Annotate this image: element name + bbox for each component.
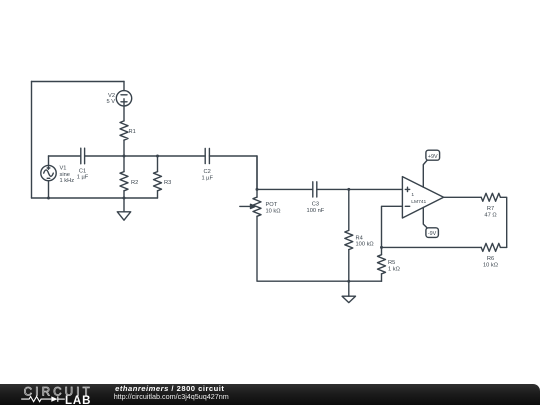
- wire R4 top lead: [348, 189, 350, 230]
- svg-text:-9V: -9V: [428, 231, 437, 237]
- svg-text:R7: R7: [487, 206, 494, 212]
- footer text line 1: [115, 385, 224, 393]
- node row A / R2 junction: [123, 155, 126, 158]
- resistor R4: [345, 230, 353, 249]
- svg-text:LAB: LAB: [65, 395, 91, 405]
- wire row B left (node to C3): [257, 188, 313, 190]
- svg-text:1 µF: 1 µF: [77, 175, 89, 181]
- svg-text:sine: sine: [60, 172, 70, 178]
- wire V1 top lead: [48, 156, 50, 165]
- resistor R2: [120, 172, 128, 191]
- resistor R6: [481, 243, 500, 251]
- wire left rail: [31, 82, 33, 199]
- svg-text:100 kΩ: 100 kΩ: [356, 242, 374, 248]
- svg-text:1 kΩ: 1 kΩ: [388, 267, 400, 273]
- resistor R1: [120, 121, 128, 140]
- wire row A middle (C1 to C2): [85, 155, 206, 157]
- ground GND1: [117, 198, 130, 220]
- resistor R3: [154, 172, 162, 191]
- svg-text:V1: V1: [60, 166, 67, 172]
- svg-text:1 µF: 1 µF: [201, 176, 213, 182]
- svg-text:1: 1: [411, 192, 414, 198]
- svg-text:C1: C1: [79, 168, 86, 174]
- svg-text:100 nF: 100 nF: [307, 208, 325, 214]
- wire V2 top lead: [123, 82, 125, 91]
- capacitor C3: [313, 182, 317, 197]
- footer text line 2: [114, 393, 229, 400]
- svg-text:5 V: 5 V: [106, 99, 115, 105]
- wire POT bottom to bottom rail: [257, 216, 382, 281]
- node R5 / R6 junction: [380, 246, 383, 249]
- node R4 top junction: [347, 188, 350, 191]
- svg-text:R1: R1: [129, 129, 136, 135]
- power label +9V: [426, 150, 440, 160]
- resistor R7: [481, 193, 500, 201]
- wire R4 bottom lead: [348, 250, 350, 282]
- label POT: [266, 202, 281, 214]
- svg-text:R5: R5: [388, 260, 395, 266]
- wire bottom-left rail: [32, 197, 158, 199]
- ground GND2: [342, 281, 355, 302]
- label R7: [484, 206, 496, 218]
- wire R7 to right rail: [500, 197, 506, 247]
- wire top rail: [32, 81, 125, 83]
- svg-text:10 kΩ: 10 kΩ: [266, 209, 281, 215]
- wire op-amp output to R7: [444, 196, 482, 198]
- svg-text:R6: R6: [487, 256, 494, 262]
- wire R5 top lead: [381, 247, 383, 254]
- node R4 bottom junction: [347, 280, 350, 283]
- label C1: [77, 168, 89, 180]
- wire op-amp V+ pin: [423, 160, 427, 187]
- svg-text:POT: POT: [266, 202, 278, 208]
- svg-text:R4: R4: [356, 235, 363, 241]
- op-amp U1 triangle: [402, 177, 443, 218]
- svg-text:R2: R2: [131, 180, 138, 186]
- op-amp plus symbol: [405, 187, 409, 191]
- wire row B right (C3 to op-amp plus input): [317, 188, 403, 190]
- capacitor C1: [81, 148, 85, 164]
- svg-text:10 kΩ: 10 kΩ: [483, 262, 498, 268]
- wire row A left (V1 to C1): [49, 155, 81, 157]
- svg-text:C3: C3: [312, 202, 319, 208]
- power label -9V: [426, 228, 439, 238]
- label V2: [106, 93, 115, 105]
- wire op-amp V- pin: [423, 208, 427, 228]
- voltage source V2: [116, 91, 131, 106]
- node row A / R3 junction: [156, 155, 159, 158]
- capacitor C2: [205, 148, 209, 163]
- wire R2 top lead: [123, 156, 125, 172]
- potentiometer POT: [240, 197, 261, 216]
- svg-text:C2: C2: [204, 169, 211, 175]
- label R4: [356, 235, 374, 247]
- label C2: [201, 169, 213, 181]
- svg-text:R3: R3: [164, 180, 171, 186]
- svg-text:1 kHz: 1 kHz: [60, 178, 75, 184]
- wire R3 top lead: [157, 156, 159, 172]
- node POT top junction: [256, 188, 259, 191]
- wire R2 bottom lead: [123, 191, 125, 198]
- wire op-amp minus input: [382, 206, 403, 247]
- wire row A right (C2 to POT column): [209, 156, 257, 189]
- label C3: [307, 202, 325, 214]
- wire R5 bottom lead: [381, 274, 383, 281]
- wire R6 right lead: [500, 246, 506, 248]
- wire R3 bottom lead: [157, 191, 159, 198]
- resistor R5: [378, 255, 386, 274]
- wire row A junction to row B: [256, 156, 258, 197]
- svg-text:47 Ω: 47 Ω: [484, 212, 496, 218]
- node R2 ground junction: [123, 197, 126, 200]
- wire R1 to node: [123, 140, 125, 156]
- voltage source V1 sine: [41, 165, 56, 180]
- svg-text:+9V: +9V: [428, 154, 438, 160]
- label R6: [483, 256, 498, 268]
- footer bar: [0, 384, 540, 405]
- svg-text:LM741: LM741: [411, 199, 426, 205]
- wire V1 bottom lead: [48, 181, 50, 198]
- svg-text:V2: V2: [108, 93, 115, 99]
- node V1 bottom junction: [47, 197, 50, 200]
- label V1: [60, 166, 75, 185]
- CircuitLab logo: [0, 380, 110, 405]
- wire V2 to R1: [123, 106, 125, 121]
- label R5: [388, 260, 400, 272]
- op-amp minus symbol: [405, 205, 409, 207]
- wire R6 to minus node: [382, 246, 482, 248]
